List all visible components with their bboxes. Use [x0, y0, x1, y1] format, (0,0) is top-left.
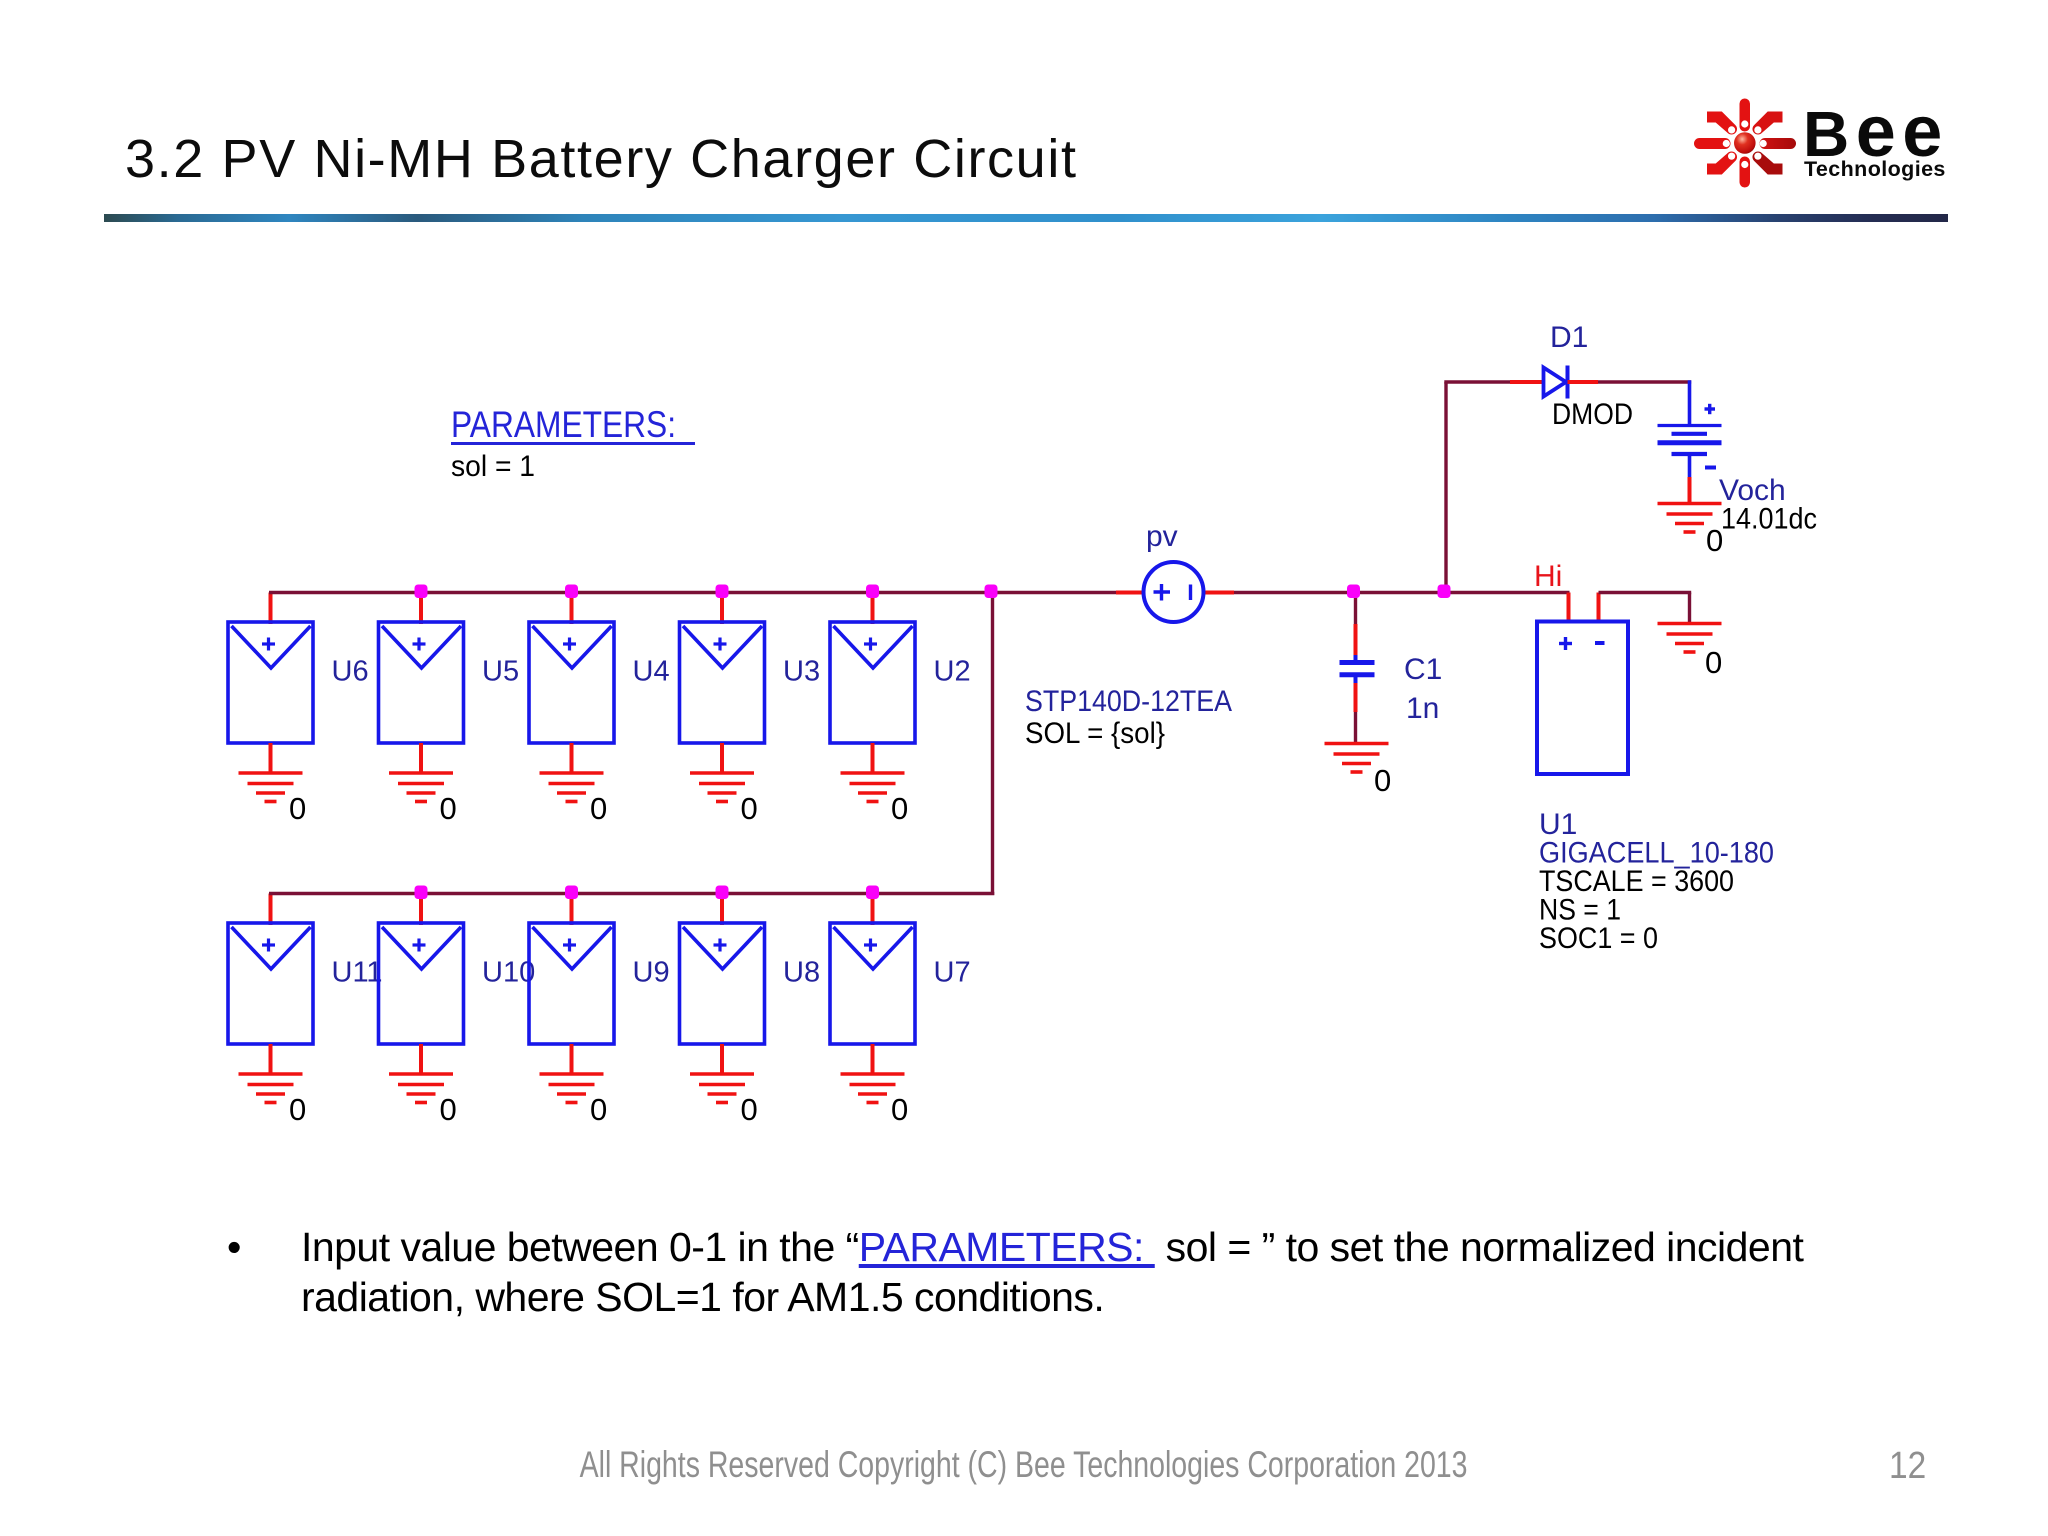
PV cell U5 [379, 593, 464, 774]
junction dot row1 x=872.5 [866, 585, 879, 599]
svg-text:0: 0 [289, 791, 306, 826]
svg-text:U3: U3 [783, 656, 820, 688]
header rule [104, 214, 1948, 222]
wire: row-2 bus [269, 892, 994, 895]
current source pv [1144, 562, 1204, 622]
PV cell U4 [529, 593, 614, 774]
svg-text:Hi: Hi [1534, 560, 1562, 593]
ground of U5 [389, 773, 453, 802]
svg-text:sol = 1: sol = 1 [451, 450, 535, 483]
wire: red stub at D1 cathode [1568, 380, 1599, 384]
ground of U3 [690, 773, 754, 802]
svg-text:U8: U8 [783, 957, 820, 989]
svg-text:STP140D-12TEA: STP140D-12TEA [1025, 685, 1232, 718]
wire: U1 - pin to ground net [1597, 593, 1601, 623]
svg-text:SOC1 = 0: SOC1 = 0 [1539, 922, 1658, 955]
PV cell U7 [830, 894, 915, 1075]
svg-text:pv: pv [1146, 520, 1178, 553]
svg-text:0: 0 [741, 791, 758, 826]
wire: vertical from Hi node up to D1 [1444, 382, 1447, 593]
ground of U8 [690, 1074, 754, 1103]
svg-text:0: 0 [1705, 645, 1722, 680]
PV cell U10 [379, 894, 464, 1075]
logo starburst NE elbow [1752, 112, 1782, 135]
bullet paragraph [227, 1222, 1987, 1322]
logo starburst NW elbow [1707, 112, 1737, 135]
junction dot row2 x=722 [716, 886, 729, 900]
svg-text:PARAMETERS:: PARAMETERS: [451, 404, 676, 445]
svg-text:DMOD: DMOD [1552, 398, 1633, 431]
wire: row-1 bus [269, 591, 1118, 594]
svg-text:C1: C1 [1404, 653, 1442, 686]
logo starburst SE elbow [1752, 151, 1782, 174]
junction dot node Hi at D1 branch [1438, 585, 1451, 599]
svg-text:0: 0 [1374, 763, 1391, 798]
logo starburst E arm [1760, 138, 1797, 149]
footer copyright [0, 1445, 2048, 1485]
logo hole N [1741, 120, 1748, 127]
wire: D1 anode wire [1444, 380, 1510, 383]
PV cell U8 [680, 894, 765, 1075]
svg-text:U5: U5 [482, 656, 519, 688]
junction dot row1 x=722 [716, 585, 729, 599]
junction dot row2 x=421 [415, 886, 428, 900]
logo starburst SW elbow [1707, 151, 1737, 174]
logo starburst S arm [1740, 157, 1751, 188]
diode D1 [1544, 366, 1568, 399]
logo starburst N arm [1740, 99, 1751, 132]
junction dot row1 x=571.5 [565, 585, 578, 599]
svg-text:D1: D1 [1550, 321, 1588, 354]
svg-text:U6: U6 [332, 656, 369, 688]
Bee Technologies logo [1680, 85, 1970, 200]
svg-text:U7: U7 [934, 957, 971, 989]
wire: row-1 bus right of pv source [1232, 591, 1570, 594]
svg-text:0: 0 [440, 1092, 457, 1127]
wire: bus to C1 [1354, 593, 1357, 625]
logo hole SW [1728, 153, 1735, 160]
svg-text:U9: U9 [633, 957, 670, 989]
logo hole W [1723, 140, 1730, 147]
svg-text:0: 0 [891, 1092, 908, 1127]
ground under Voch [1658, 504, 1722, 533]
logo hole E [1760, 140, 1767, 147]
slide title [125, 129, 1078, 189]
logo hole S [1741, 161, 1748, 168]
junction dot row2 x=571.5 [565, 886, 578, 900]
junction dot row2 x=872.5 [866, 886, 879, 900]
svg-text:0: 0 [289, 1092, 306, 1127]
wire: D1 cathode to battery corner [1598, 380, 1691, 383]
logo starburst W arm [1694, 138, 1731, 149]
logo hole NE [1754, 126, 1761, 133]
svg-text:SOL = {sol}: SOL = {sol} [1025, 717, 1165, 750]
wire: red stub battery to ground [1688, 477, 1692, 504]
svg-text:U2: U2 [934, 656, 971, 688]
ground of U4 [540, 773, 604, 802]
PV cell U11 [228, 894, 313, 1075]
capacitor C1 [1340, 655, 1375, 683]
wire: C1 to ground [1354, 712, 1357, 744]
svg-text:U4: U4 [633, 656, 670, 688]
junction dot row1 connector [985, 585, 998, 599]
ground of U2 [841, 773, 905, 802]
svg-text:0: 0 [891, 791, 908, 826]
svg-text:14.01dc: 14.01dc [1721, 503, 1817, 536]
logo hole SE [1754, 153, 1761, 160]
ground of U7 [841, 1074, 905, 1103]
ground of U11 [239, 1074, 303, 1103]
svg-text:0: 0 [741, 1092, 758, 1127]
svg-text:1n: 1n [1406, 692, 1439, 725]
wire: red stub below C1 [1354, 683, 1358, 712]
battery block U1 [1537, 622, 1628, 775]
svg-text:0: 0 [590, 791, 607, 826]
PV cell U9 [529, 894, 614, 1075]
wire: red stub to C1 top plate [1354, 624, 1358, 659]
ground of U9 [540, 1074, 604, 1103]
wire: blue lead into battery Voch [1688, 380, 1692, 426]
ground under C1 [1325, 744, 1389, 773]
ground right of U1 [1658, 624, 1722, 653]
PV cell U6 [228, 593, 313, 774]
ground of U10 [389, 1074, 453, 1103]
parameters heading underline [451, 442, 695, 445]
PV cell U2 [830, 593, 915, 774]
wire: vertical connector row1-row2 [991, 593, 994, 896]
svg-text:0: 0 [590, 1092, 607, 1127]
wire: red terminal right of pv [1204, 591, 1234, 595]
wire: red terminal left of pv [1116, 591, 1144, 595]
junction dot node at C1 [1347, 585, 1360, 599]
PV cell U3 [680, 593, 765, 774]
logo center ball [1734, 132, 1756, 154]
junction dot row1 x=421 [415, 585, 428, 599]
page number [1889, 1446, 1931, 1486]
battery Voch (V source) [1658, 404, 1722, 477]
logo hole NW [1728, 126, 1735, 133]
wire: red stub to U1 + pin [1567, 593, 1571, 623]
svg-text:0: 0 [440, 791, 457, 826]
wire: red stub at D1 anode [1510, 380, 1543, 384]
wire: U1 - net horizontal [1599, 591, 1692, 594]
wire: down to right ground [1688, 593, 1691, 625]
svg-text:U11: U11 [332, 957, 383, 989]
ground of U6 [239, 773, 303, 802]
